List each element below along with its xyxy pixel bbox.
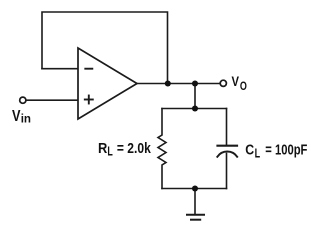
- wire: feedback loop from output to inverting input: [42, 12, 168, 84]
- svg-text:L: L: [107, 145, 113, 159]
- wire: non-inverting input from Vin terminal: [27, 99, 78, 101]
- output terminal (open circle): [220, 80, 226, 86]
- op-amp U1: [78, 48, 137, 119]
- svg-text:= 100pF: = 100pF: [265, 143, 307, 159]
- label VO: [232, 74, 248, 93]
- wire: output: [137, 83, 219, 85]
- label RL = 2.0k: [98, 141, 152, 159]
- svg-text:= 2.0k: = 2.0k: [117, 141, 152, 157]
- svg-text:R: R: [98, 141, 108, 157]
- wire: load network bottom: [162, 188, 227, 190]
- node: load junction on output: [192, 80, 198, 86]
- input terminal (open circle): [20, 97, 26, 103]
- svg-text:V: V: [12, 108, 21, 125]
- wire: inverting input: [42, 68, 78, 70]
- wire: ground stub: [194, 189, 196, 215]
- label Vin: [12, 108, 31, 126]
- wire: output node down to load network: [194, 84, 196, 109]
- node: top of load network: [192, 105, 198, 111]
- node: feedback junction on output: [165, 80, 171, 86]
- svg-text:O: O: [240, 79, 247, 93]
- node: bottom of load network: [192, 185, 198, 191]
- svg-text:L: L: [255, 147, 261, 161]
- label CL = 100pF: [245, 143, 307, 161]
- svg-text:V: V: [232, 74, 240, 89]
- capacitor CL (right branch): [217, 109, 237, 189]
- wire: load network top: [162, 108, 227, 110]
- ground: [187, 215, 204, 220]
- svg-text:in: in: [21, 112, 31, 126]
- resistor RL (left branch with zigzag): [158, 109, 166, 189]
- svg-text:C: C: [245, 143, 254, 159]
